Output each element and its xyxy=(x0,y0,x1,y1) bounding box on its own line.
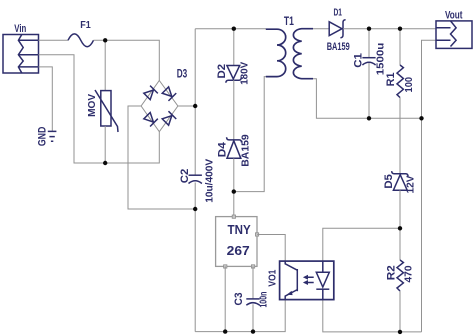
fuse F1 xyxy=(68,19,94,47)
wire D4 to TNY drain xyxy=(233,158,235,216)
connector Vin xyxy=(3,23,39,73)
svg-text:100n: 100n xyxy=(258,292,270,308)
svg-text:12V: 12V xyxy=(405,176,417,194)
wire Vin pin1 to F1 xyxy=(39,39,69,41)
svg-text:470: 470 xyxy=(403,265,415,282)
svg-text:TNY: TNY xyxy=(228,222,251,237)
node TNY drain xyxy=(232,189,236,193)
wire bridge left to node xyxy=(128,106,195,209)
wire primary winding bottom to node xyxy=(234,77,266,192)
connector Vout xyxy=(436,9,472,48)
svg-text:T1: T1 xyxy=(284,14,294,28)
resistor R2 xyxy=(386,260,415,291)
IC U1 TNY267 xyxy=(216,215,259,268)
wire TNY feedback to optocoupler xyxy=(257,235,285,262)
svg-text:1500u: 1500u xyxy=(375,43,387,76)
wire F1 to bridge top xyxy=(94,40,160,80)
node opto anode xyxy=(398,226,402,230)
wire primary rail below C2 xyxy=(194,183,196,332)
node C3 bottom xyxy=(251,329,255,333)
diode D2 (zener 180V) xyxy=(216,61,251,84)
svg-text:Vout: Vout xyxy=(445,9,463,21)
node D2 top xyxy=(232,27,236,31)
svg-text:D1: D1 xyxy=(333,7,342,18)
node R2 bottom xyxy=(398,330,402,334)
svg-text:F1: F1 xyxy=(80,19,91,31)
svg-text:D2: D2 xyxy=(216,64,228,79)
svg-text:R2: R2 xyxy=(386,265,398,280)
capacitor C3 xyxy=(233,292,270,308)
node C1 top xyxy=(367,27,371,31)
wire MOV top xyxy=(104,40,106,90)
svg-text:D3: D3 xyxy=(177,66,188,80)
node bridge positive xyxy=(193,104,197,108)
svg-text:MOV: MOV xyxy=(87,94,98,117)
wire Vout pin2 xyxy=(422,40,437,332)
node MOV-return junction xyxy=(103,161,107,165)
wire bridge right xyxy=(178,105,195,107)
svg-text:180V: 180V xyxy=(240,61,251,84)
varistor MOV xyxy=(87,90,118,132)
svg-text:C2: C2 xyxy=(179,169,191,184)
node Vout return xyxy=(419,116,423,120)
transformer T1 xyxy=(266,14,313,79)
svg-text:BA159: BA159 xyxy=(327,41,350,53)
resistor R1 xyxy=(385,29,415,119)
wire T1 secondary top to D1 xyxy=(313,28,329,30)
wire D5 to R2 node xyxy=(399,190,401,260)
wire primary ground rail xyxy=(195,300,285,332)
optocoupler VO1 xyxy=(266,261,334,300)
wire TNY bypass pin xyxy=(252,267,254,332)
wire D2 branch top xyxy=(233,29,235,66)
node F1-MOV junction xyxy=(103,38,107,42)
svg-text:GND: GND xyxy=(37,127,49,147)
svg-text:Vin: Vin xyxy=(14,23,26,35)
capacitor C1 xyxy=(353,29,387,119)
diode D4 BA159 xyxy=(217,134,252,167)
ground GND xyxy=(37,127,57,147)
bridge rectifier D3 xyxy=(141,66,187,131)
svg-text:C1: C1 xyxy=(353,53,365,68)
node C1 bottom xyxy=(367,116,371,120)
wire primary top rail xyxy=(195,28,266,30)
diode D5 (zener 12V) xyxy=(383,171,417,193)
capacitor C2 xyxy=(179,158,216,202)
wire T1 secondary bottom xyxy=(313,79,422,119)
svg-text:R1: R1 xyxy=(385,72,397,86)
node TNY source left xyxy=(223,329,227,333)
wire optocoupler anode xyxy=(323,228,400,261)
svg-text:C3: C3 xyxy=(233,293,245,306)
wire MOV bottom xyxy=(104,126,106,163)
wire D1 to Vout xyxy=(343,28,436,30)
wire R2 bottom xyxy=(399,291,401,332)
wire secondary ground rail xyxy=(323,300,422,332)
svg-text:VO1: VO1 xyxy=(266,269,278,286)
wire primary positive rail xyxy=(194,29,196,175)
svg-text:10u/400V: 10u/400V xyxy=(204,158,215,202)
svg-text:267: 267 xyxy=(227,243,250,258)
svg-text:D5: D5 xyxy=(383,174,395,189)
node R1 top xyxy=(398,27,402,31)
wire Vin pin3 to ground xyxy=(39,67,53,131)
svg-text:BA159: BA159 xyxy=(241,134,252,167)
node bridge negative xyxy=(193,207,197,211)
wire TNY source pin left xyxy=(224,267,226,332)
svg-text:D4: D4 xyxy=(217,141,229,157)
wire D2 to D4 xyxy=(233,80,235,140)
wire D5 branch xyxy=(399,118,401,173)
diode D1 BA159 xyxy=(327,7,350,53)
wire Vin pin2 return xyxy=(39,55,160,163)
svg-text:100: 100 xyxy=(403,77,415,93)
